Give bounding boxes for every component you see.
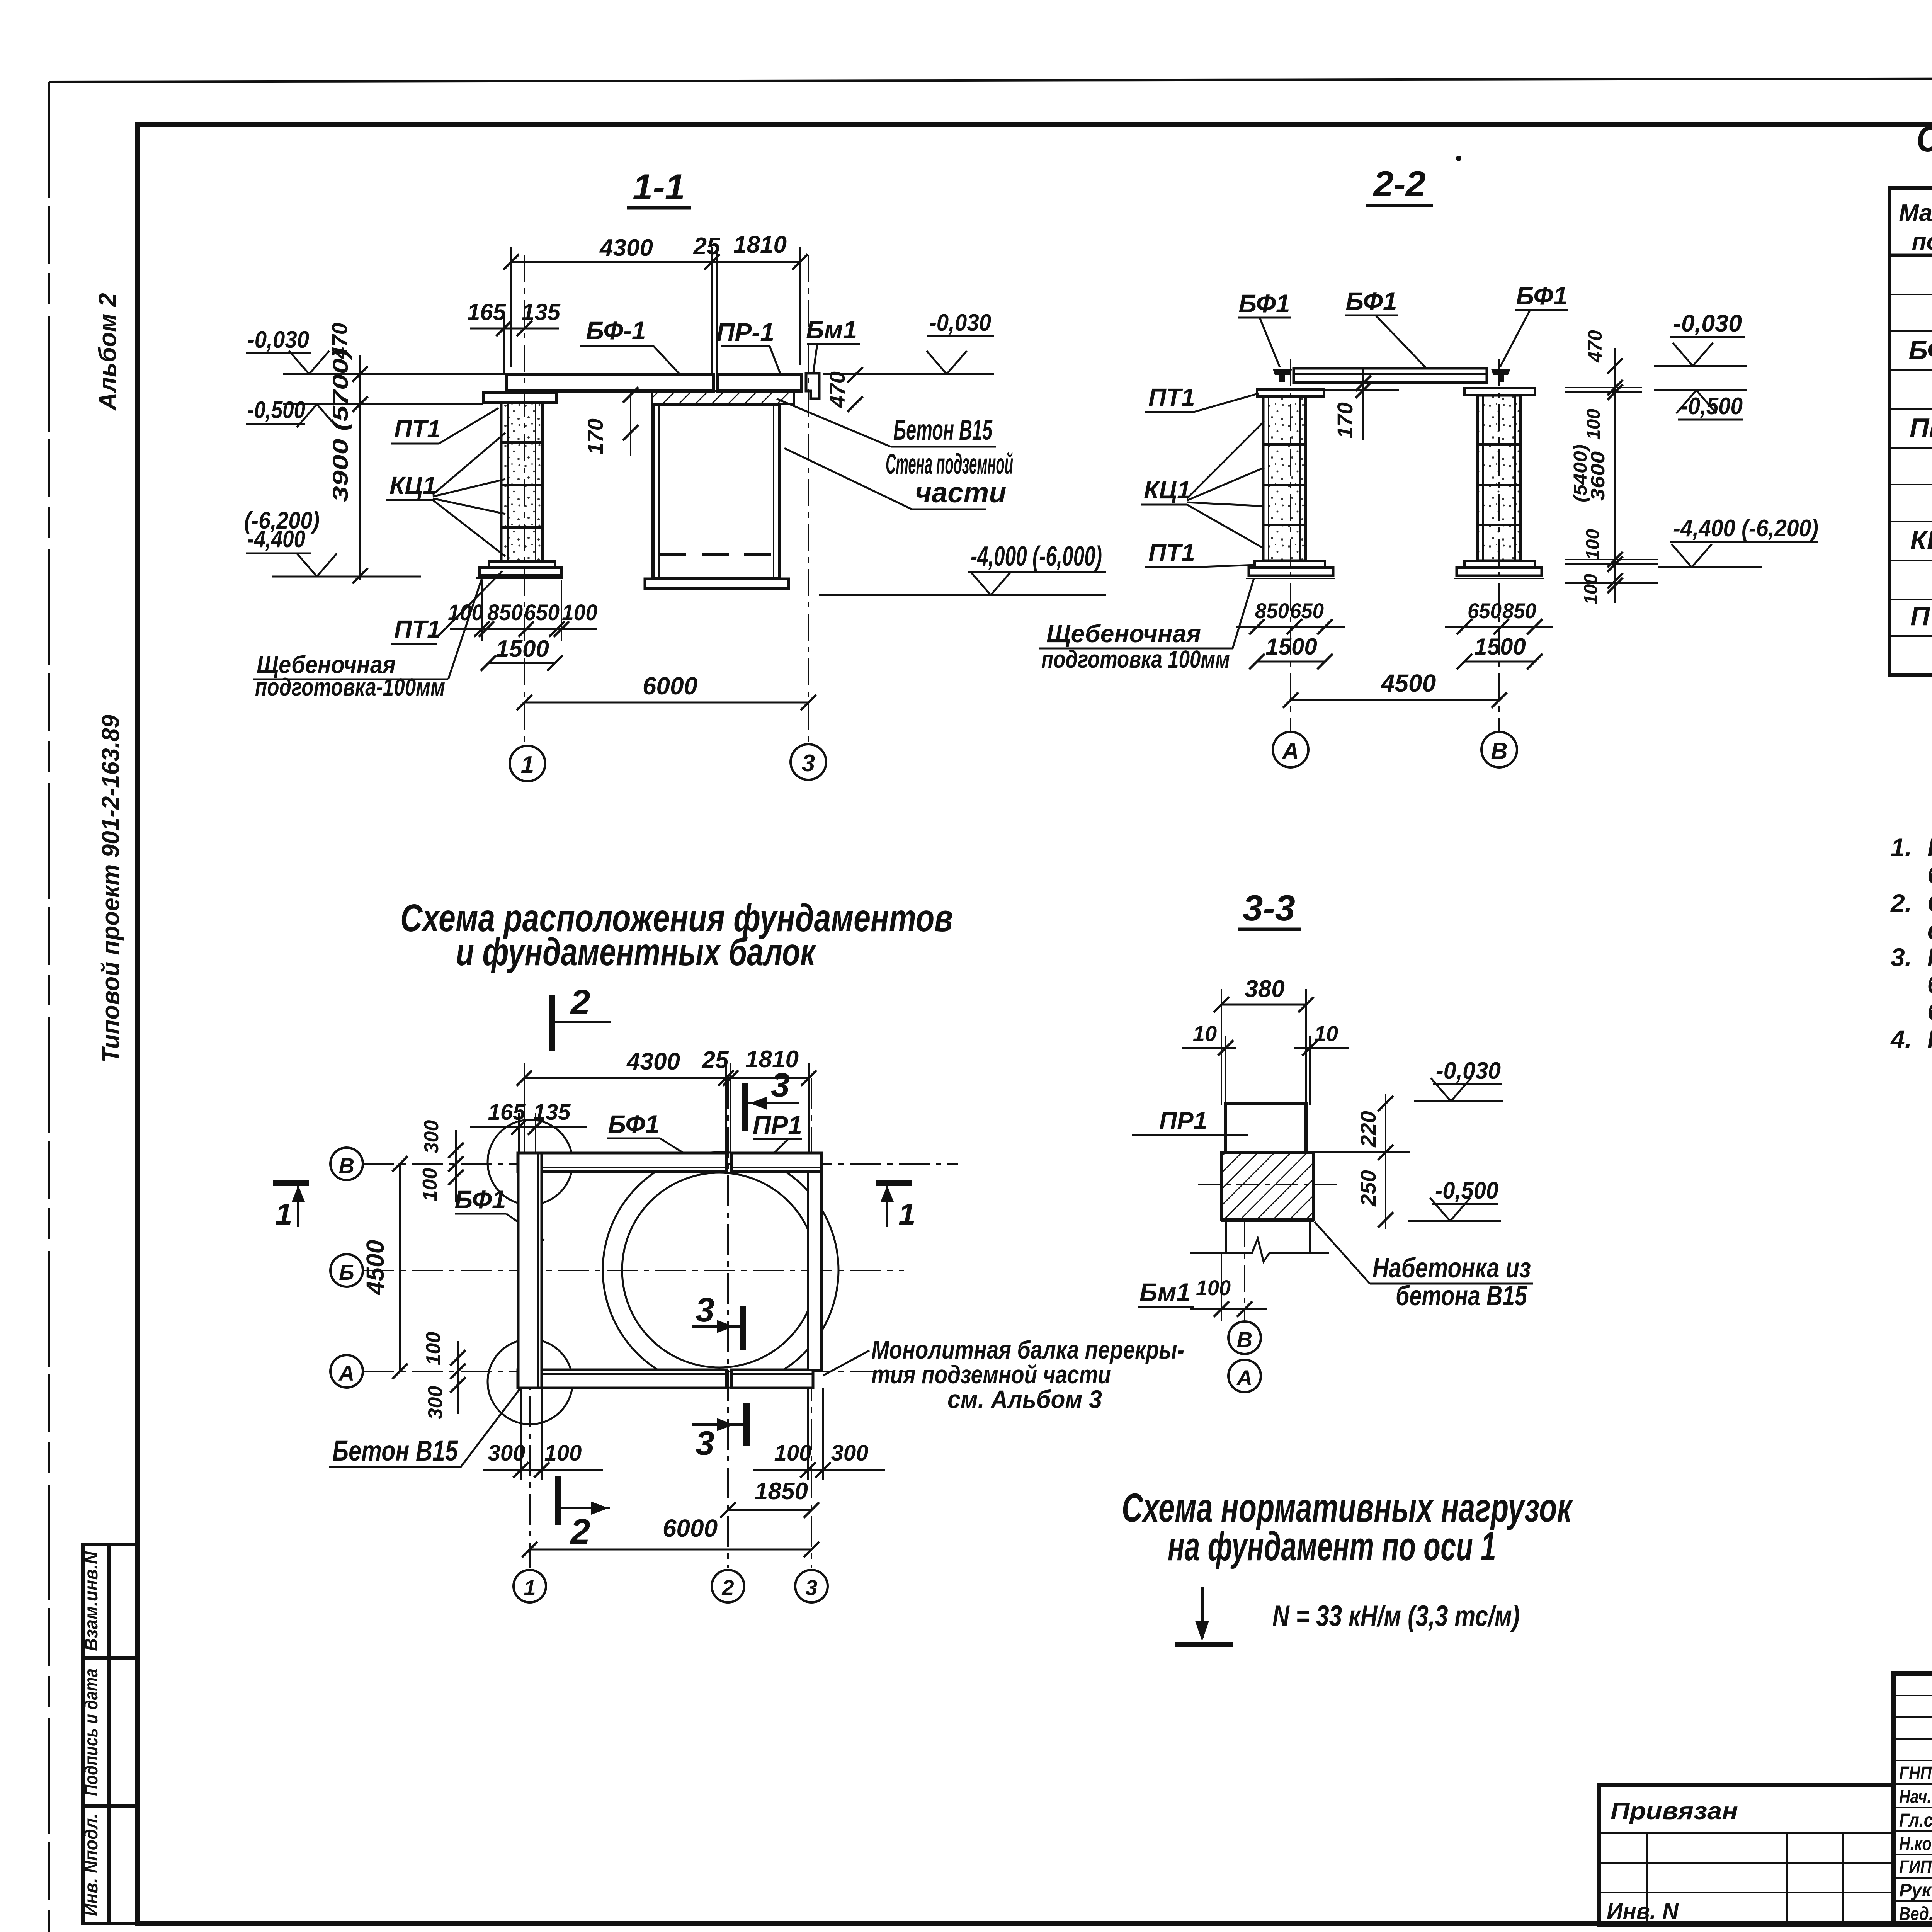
pillar cap plate PT1 (section 1-1) (483, 393, 556, 403)
svg-text:см. Альбом 3: см. Альбом 3 (947, 1385, 1102, 1413)
svg-text:1: 1 (524, 1575, 536, 1600)
vertical dim line 3900(5700) (328, 349, 368, 583)
label KC1 (section 1-1) (386, 433, 505, 556)
axis circle 3 (section 1-1) (791, 744, 826, 780)
svg-text:поз.: поз. (1912, 228, 1932, 255)
rotated dim 470 left (327, 323, 352, 359)
plan axes dash-dot (363, 1078, 958, 1568)
left level -4,400 (-6,200) (244, 507, 421, 577)
axis circle 1 (section 1-1) (510, 746, 545, 781)
svg-text:тия подземной части: тия подземной части (871, 1360, 1111, 1389)
svg-text:650: 650 (1468, 599, 1502, 623)
corner detail circle top-left (plan) (488, 1120, 573, 1205)
svg-text:300: 300 (420, 1120, 443, 1154)
svg-text:100: 100 (448, 600, 483, 625)
svg-text:1810: 1810 (733, 231, 787, 258)
svg-text:2.: 2. (1890, 889, 1912, 917)
section mark 3 bottom (plan) (692, 1403, 747, 1462)
svg-text:1500: 1500 (1265, 634, 1317, 660)
underground wall (section 1-1) (645, 404, 789, 588)
svg-text:380: 380 (1245, 976, 1284, 1002)
svg-text:1: 1 (275, 1197, 293, 1231)
svg-text:Взам.инв.N: Взам.инв.N (81, 1551, 102, 1651)
svg-text:470: 470 (1584, 330, 1606, 363)
svg-text:3.: 3. (1891, 943, 1912, 971)
label crushed stone prep (section 1-1) (253, 577, 482, 701)
svg-text:10: 10 (1314, 1021, 1338, 1046)
svg-text:-0,500: -0,500 (1435, 1177, 1498, 1204)
label concrete topping (3-3) (1315, 1222, 1533, 1311)
plan title (400, 896, 953, 974)
plan bottom-right dims 100/300 (753, 1388, 885, 1480)
svg-text:Подпись и дата: Подпись и дата (81, 1668, 102, 1796)
svg-text:слою свежеуложенного цементн: слою свежеуложенного цементного раствора… (1927, 916, 1932, 944)
svg-text:Нач.отд.: Нач.отд. (1899, 1787, 1932, 1807)
load arrow N (1175, 1587, 1233, 1645)
svg-text:-0,030: -0,030 (247, 327, 309, 353)
svg-text:Бм1: Бм1 (806, 315, 857, 344)
plan bottom-left dims 300/100 (483, 1388, 603, 1480)
svg-text:3: 3 (805, 1575, 817, 1600)
svg-text:Бм1: Бм1 (1139, 1278, 1190, 1306)
svg-text:165: 165 (467, 299, 507, 325)
plan beam strip left column axis1 (518, 1153, 542, 1388)
svg-text:Альбом 2: Альбом 2 (94, 293, 121, 411)
svg-text:100: 100 (1583, 529, 1603, 560)
label crushed stone (section 2-2) (1039, 578, 1254, 673)
label BF-1 with leader (580, 316, 691, 386)
svg-text:3: 3 (696, 1424, 714, 1462)
label Bm1 callout (plan) (823, 1278, 1194, 1413)
labels PT1/KC1/PT1 (section 2-2) (1141, 383, 1264, 567)
svg-text:Кольца опор заполняются мес: Кольца опор заполняются местным талым гр… (1927, 833, 1932, 862)
svg-text:135: 135 (522, 299, 561, 325)
svg-text:Стена подземной: Стена подземной (886, 448, 1013, 480)
svg-text:Гл.спец.: Гл.спец. (1899, 1810, 1932, 1831)
svg-text:БФ1: БФ1 (1908, 335, 1932, 365)
svg-text:КЦ1: КЦ1 (1910, 525, 1932, 555)
svg-text:Размеры в скобках даны для: Размеры в скобках даны для глубины шахты… (1927, 1025, 1932, 1053)
svg-text:3: 3 (802, 750, 815, 777)
svg-text:и фундаментных балок: и фундаментных балок (456, 930, 816, 974)
svg-text:А: А (1236, 1366, 1252, 1390)
dim 100 (3-3) (1190, 1252, 1267, 1321)
right pillar (section 2-2) (1454, 388, 1544, 578)
section mark 2 bottom (plan) (558, 1476, 610, 1551)
shaft circles (plan) (603, 1152, 838, 1388)
svg-text:Привязан: Привязан (1611, 1798, 1738, 1825)
svg-text:6000: 6000 (643, 672, 697, 700)
svg-text:Монолитная балка перекры-: Монолитная балка перекры- (871, 1335, 1184, 1364)
svg-text:битумом за 2 раза.: битумом за 2 раза. (1927, 997, 1932, 1026)
svg-text:4300: 4300 (599, 235, 653, 261)
small offset dims top-left (plan) (419, 1120, 464, 1202)
spec table grid (1889, 188, 1932, 675)
pillar bearing block (507, 391, 536, 401)
svg-text:ПР1: ПР1 (1910, 413, 1932, 443)
svg-text:КЦ1: КЦ1 (1144, 476, 1191, 504)
svg-text:на фундамент по оси 1: на фундамент по оси 1 (1168, 1524, 1496, 1569)
svg-text:А: А (1281, 738, 1299, 764)
svg-text:100: 100 (1583, 409, 1604, 440)
svg-text:-0,500: -0,500 (1681, 393, 1743, 420)
spec table header texts (1899, 200, 1932, 255)
left stamp column (81, 1544, 138, 1923)
svg-text:4.: 4. (1890, 1025, 1912, 1053)
left margin text: project number (97, 715, 124, 1063)
dims 220/250 (3-3) (1314, 1094, 1410, 1229)
wall below with break (3-3) (1190, 1220, 1329, 1262)
svg-text:4300: 4300 (626, 1048, 680, 1075)
title block outer (1893, 1673, 1932, 1925)
plan dim 165/135 (470, 1100, 587, 1153)
svg-text:подготовка-100мм: подготовка-100мм (255, 673, 445, 701)
svg-text:балки, соприкасающиеся с гру: балки, соприкасающиеся с грунтом, обмаза… (1927, 970, 1932, 998)
lintel PR1 section (3-3) (1226, 1104, 1306, 1152)
left pillar (section 2-2) (1246, 389, 1335, 578)
svg-text:1.: 1. (1891, 833, 1912, 862)
svg-text:БФ-1: БФ-1 (586, 316, 646, 345)
section 1-1 title (627, 167, 691, 208)
dim 4500 left (plan) (361, 1156, 408, 1379)
dim 170 (section 1-1) (583, 387, 638, 456)
monolithic beam Bm1 section (806, 373, 819, 399)
label PT1 top (section 1-1) (391, 408, 498, 444)
section 2-2 title (1366, 163, 1433, 206)
section mark 3 middle (plan) (692, 1291, 743, 1350)
level -4,400 (-6,200) (section 2-2) (1658, 515, 1818, 567)
label PR1 (3-3) (1132, 1107, 1248, 1135)
corner detail circle bottom-left (plan) (488, 1339, 573, 1424)
svg-text:6000: 6000 (663, 1514, 718, 1542)
svg-text:3-3: 3-3 (1243, 888, 1295, 928)
svg-text:ГИП: ГИП (1899, 1857, 1932, 1878)
dims under left pillar (section 2-2) (1236, 599, 1345, 669)
svg-text:100: 100 (419, 1168, 441, 1202)
svg-text:2-2: 2-2 (1372, 163, 1426, 204)
svg-text:1-1: 1-1 (633, 167, 685, 207)
svg-text:БФ1: БФ1 (608, 1110, 659, 1138)
small dot artifact (1456, 156, 1461, 161)
svg-text:-0,030: -0,030 (1673, 310, 1742, 337)
svg-text:650: 650 (524, 600, 560, 625)
lintel PR-1 cross bar (718, 375, 802, 391)
plan dim 6000 (522, 1514, 819, 1557)
label PR-1 with leader (716, 318, 785, 386)
svg-text:ГНП: ГНП (1899, 1763, 1932, 1784)
spec table rows (1908, 259, 1932, 631)
svg-text:ПТ1: ПТ1 (1910, 601, 1932, 631)
concrete B15 hatched strip (652, 391, 794, 404)
svg-text:ПТ1: ПТ1 (1148, 383, 1195, 411)
plan bottom axis circles 1,2,3 (514, 1570, 828, 1602)
svg-text:БФ1: БФ1 (1516, 281, 1567, 310)
svg-text:100: 100 (422, 1332, 445, 1366)
axis circles V,B,A left (plan) (330, 1148, 363, 1388)
svg-text:ПТ1: ПТ1 (394, 415, 441, 443)
svg-text:Инв. N: Инв. N (1607, 1899, 1679, 1924)
svg-text:25: 25 (702, 1047, 729, 1073)
svg-text:1: 1 (521, 752, 534, 778)
section 1-1 top dimension 4300/25/1810 (503, 231, 808, 373)
left margin text: album (94, 293, 121, 411)
dim 380 (section 3-3) (1214, 976, 1314, 1105)
svg-text:части: части (915, 476, 1006, 509)
dim 170 (section 2-2) (1325, 369, 1399, 440)
svg-text:220: 220 (1356, 1111, 1380, 1147)
svg-text:1500: 1500 (496, 636, 549, 662)
spec table title (1917, 118, 1932, 192)
label concrete B15 (section 1-1) (777, 399, 996, 447)
labels BF1 x3 (section 2-2) (1238, 281, 1568, 372)
plan dim 1850 (720, 1478, 819, 1518)
pillar ring stack KC1 (section 1-1) (501, 403, 543, 562)
svg-text:бетона В15: бетона В15 (1396, 1281, 1527, 1311)
svg-text:170: 170 (583, 418, 607, 454)
svg-text:БФ1: БФ1 (1345, 287, 1397, 315)
plan beam strip right column axis3 (808, 1172, 821, 1370)
svg-text:10: 10 (1193, 1021, 1217, 1046)
dims under right pillar (section 2-2) (1445, 599, 1553, 669)
dims under pillar (section 1-1) (448, 580, 597, 641)
label BF1 top (plan) (607, 1110, 694, 1159)
level -0,500 (section 2-2) (1654, 390, 1747, 420)
svg-text:подготовка 100мм: подготовка 100мм (1041, 645, 1230, 673)
axes and circles A,B (section 2-2) (1273, 359, 1517, 767)
axis line 3 (section 1-1) (808, 255, 809, 744)
privyazan box (1599, 1785, 1893, 1925)
svg-text:2: 2 (570, 1512, 590, 1551)
svg-text:850: 850 (1255, 599, 1289, 623)
svg-text:-4,400: -4,400 (247, 526, 305, 553)
concrete topping hatched (3-3) (1198, 1152, 1337, 1220)
svg-text:Щебеночная: Щебеночная (1046, 620, 1201, 648)
BF1 end block left (section 2-2) (1273, 369, 1292, 382)
svg-text:-0,030: -0,030 (1436, 1058, 1501, 1084)
svg-text:-4,400 (-6,200): -4,400 (-6,200) (1673, 515, 1818, 542)
left level -0,030 (section 1-1) (246, 327, 507, 374)
svg-text:4500: 4500 (361, 1240, 389, 1296)
rotated dim 470 near Bm1 (825, 367, 863, 412)
svg-text:1850: 1850 (755, 1478, 808, 1505)
svg-text:3900 (5700): 3900 (5700) (328, 349, 352, 502)
svg-text:Набетонка из: Набетонка из (1372, 1253, 1531, 1284)
level -0,030 right of section 1-1 (823, 310, 994, 374)
small offset dims bottom-left (plan) (422, 1332, 466, 1420)
section mark 3 top (plan) (745, 1066, 799, 1131)
svg-text:При варианте в мокрых грунт: При варианте в мокрых грунтах опоры под … (1927, 943, 1932, 971)
level -4,000(-6,000) (section 1-1) (819, 541, 1106, 595)
svg-text:Сборные железобетонные элеме: Сборные железобетонные элементы укладыва… (1927, 889, 1932, 917)
svg-text:А: А (338, 1361, 354, 1385)
svg-text:2: 2 (570, 983, 590, 1022)
svg-text:100: 100 (1581, 574, 1601, 605)
svg-text:КЦ1: КЦ1 (389, 471, 437, 499)
section mark 1 right (plan) (876, 1183, 916, 1231)
svg-text:470: 470 (825, 371, 849, 408)
svg-text:Бетон В15: Бетон В15 (332, 1435, 458, 1467)
section mark 2 top (plan) (552, 983, 611, 1051)
dim 1500 (section 1-1) (481, 636, 563, 671)
svg-text:300: 300 (831, 1440, 869, 1466)
svg-text:ПТ1: ПТ1 (394, 615, 441, 643)
svg-text:-4,000 (-6,000): -4,000 (-6,000) (971, 541, 1102, 572)
svg-text:170: 170 (1333, 402, 1357, 438)
beam (section 2-2) (1294, 368, 1487, 383)
svg-text:N = 33 кН/м (3,3 тс/м): N = 33 кН/м (3,3 тс/м) (1272, 1600, 1520, 1633)
load value text (1272, 1600, 1520, 1633)
svg-text:Марка: Марка (1899, 200, 1932, 226)
label concrete B15 (plan) (329, 1389, 520, 1467)
section 3-3 title (1238, 888, 1301, 929)
label underground wall (section 1-1) (784, 448, 1013, 509)
svg-text:ПТ1: ПТ1 (1148, 539, 1195, 566)
label PT1 bottom (section 1-1) (391, 571, 502, 644)
label Bm1 with leader (806, 315, 860, 376)
svg-text:Инв. Nподл.: Инв. Nподл. (81, 1813, 102, 1916)
dims 10/10 (section 3-3) (1182, 1021, 1349, 1105)
svg-text:100: 100 (774, 1440, 812, 1466)
level -0,030 (3-3) (1414, 1058, 1503, 1101)
svg-text:2: 2 (721, 1575, 734, 1600)
svg-text:В: В (1491, 738, 1507, 764)
dim 4500 (section 2-2) (1283, 669, 1507, 708)
svg-text:В: В (1237, 1327, 1252, 1352)
svg-text:Рук. гр.: Рук. гр. (1899, 1880, 1932, 1901)
title block signature rows (1899, 1762, 1932, 1925)
svg-text:-0,500: -0,500 (247, 397, 305, 423)
svg-text:300: 300 (488, 1440, 526, 1466)
dim 6000 (section 1-1) (517, 672, 816, 710)
right vertical dim stack (section 2-2) (1565, 330, 1658, 605)
svg-text:1500: 1500 (1474, 634, 1526, 660)
pillar bottom plate PT1 (section 1-1) (476, 561, 563, 578)
svg-text:Спецификация элементов к схем: Спецификация элементов к схеме расположе… (1917, 118, 1932, 160)
label BF1 left (plan) (454, 1185, 544, 1240)
svg-text:ПР1: ПР1 (753, 1111, 802, 1139)
BF1 end block right (section 2-2) (1491, 369, 1510, 382)
svg-text:4500: 4500 (1380, 669, 1436, 697)
svg-text:100: 100 (544, 1440, 582, 1466)
section 1-1 dimension 165/135 (467, 299, 561, 374)
svg-text:Вед.инж.: Вед.инж. (1899, 1904, 1932, 1924)
notes list (1890, 833, 1932, 1053)
svg-text:-0,030: -0,030 (929, 310, 991, 336)
axis line 1 (section 1-1) (524, 255, 525, 746)
svg-text:ПР-1: ПР-1 (716, 318, 774, 346)
svg-text:100: 100 (1196, 1276, 1231, 1300)
svg-text:650: 650 (1290, 599, 1324, 623)
section mark 1 left (plan) (273, 1183, 309, 1231)
svg-text:100: 100 (562, 600, 597, 625)
svg-text:300: 300 (424, 1386, 447, 1420)
left level -0,500 (section 1-1) (246, 397, 483, 427)
svg-text:3: 3 (771, 1066, 790, 1104)
svg-text:3600: 3600 (1587, 451, 1609, 501)
plan beam strip bottom row A (518, 1370, 813, 1388)
svg-text:Бетон В15: Бетон В15 (893, 414, 993, 446)
foundation beam BF-1 cross bar (507, 375, 714, 391)
svg-text:Н.контр.: Н.контр. (1899, 1834, 1932, 1854)
plan beam strip top row V (518, 1153, 821, 1172)
axis circles B,A (3-3) (1228, 1220, 1261, 1392)
svg-text:БФ1: БФ1 (1238, 289, 1290, 318)
title block grid (1893, 1673, 1932, 1925)
svg-text:ПР1: ПР1 (1159, 1107, 1207, 1134)
svg-text:Б: Б (339, 1260, 354, 1284)
svg-text:В: В (339, 1153, 354, 1178)
level -0,500 (3-3) (1408, 1177, 1501, 1221)
svg-text:без органических примесей.: без органических примесей. (1927, 860, 1932, 889)
svg-text:250: 250 (1356, 1170, 1380, 1206)
svg-text:3: 3 (696, 1291, 714, 1329)
svg-text:1: 1 (898, 1197, 916, 1231)
load scheme title (1122, 1485, 1573, 1569)
svg-text:Типовой проект 901-2-163.89: Типовой проект 901-2-163.89 (97, 715, 124, 1063)
label PR1 top (plan) (753, 1111, 802, 1156)
plan top dims 4300/25/1810 (517, 1046, 816, 1153)
level -0,030 (section 2-2) (1654, 310, 1747, 366)
